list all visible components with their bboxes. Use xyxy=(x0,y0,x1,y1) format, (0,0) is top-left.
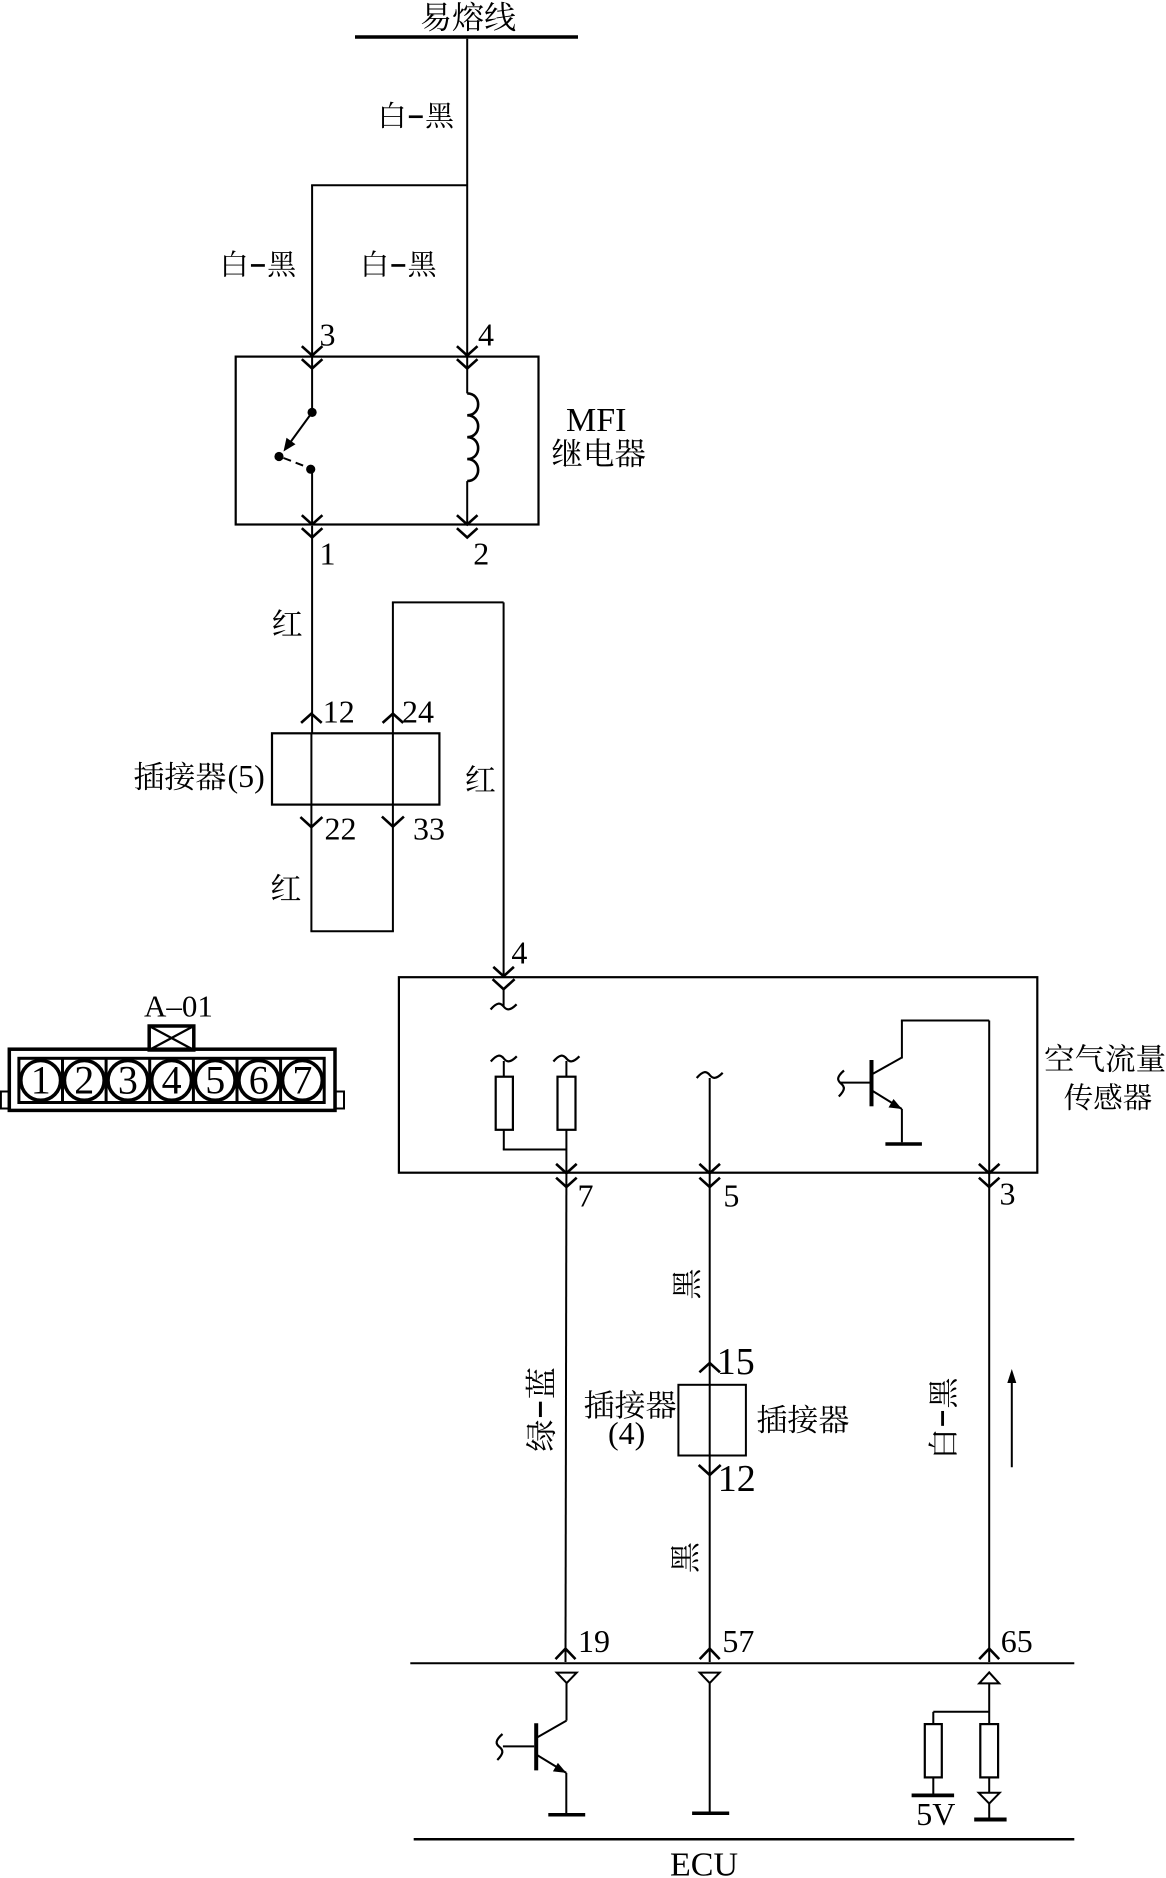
relay K1 MFI 继电器 box xyxy=(236,357,539,525)
R4 output triangle xyxy=(979,1793,1000,1804)
arrow out of connector5 pin 33 xyxy=(382,817,404,827)
break squiggle middle wire xyxy=(697,1072,723,1078)
arrow into connector5 pin 24 xyxy=(383,714,404,723)
wire up into pin33 xyxy=(392,805,394,932)
arrow below sensor pin 7 xyxy=(556,1178,577,1187)
connector5 internal wire 12-22 xyxy=(310,733,312,804)
sensor name 空气流量 xyxy=(1045,1044,1164,1072)
R4 ground bar xyxy=(974,1818,1006,1822)
R3 bottom stub xyxy=(932,1777,934,1793)
connector A-01 outer housing xyxy=(9,1049,335,1110)
svg-text:6: 6 xyxy=(249,1058,269,1103)
wire down to sensor pin4 红 xyxy=(503,602,505,975)
fusible link bus bar xyxy=(355,35,578,39)
Q1 collector riser xyxy=(901,1021,903,1059)
wire color label 白-黑 (left) xyxy=(224,250,295,277)
arrow below sensor pin 3 xyxy=(979,1178,1000,1187)
connector label 插接器 (right) xyxy=(757,1405,848,1434)
Q2 emitter ground bar xyxy=(548,1813,585,1817)
arrow below relay pin2 xyxy=(457,528,478,537)
connector (4) box 插接器(4) xyxy=(678,1385,746,1456)
ECU pin19 wire xyxy=(566,1683,568,1720)
connector A-01 terminal 7 xyxy=(283,1058,323,1103)
wire sensor pin7 to ECU pin19 绿-蓝 xyxy=(565,1174,568,1662)
break squiggle resistor R2 xyxy=(553,1056,579,1062)
connector A-01 cell divider xyxy=(236,1058,239,1102)
arrow inside sensor pin4 xyxy=(493,979,515,989)
ECU bottom boundary line xyxy=(414,1838,1075,1841)
svg-text:1: 1 xyxy=(31,1058,51,1103)
connector A-01 terminal 3 xyxy=(108,1058,148,1103)
wire color label 红 (below) xyxy=(272,874,301,900)
arrow below sensor pin 5 xyxy=(699,1178,720,1187)
arrow inside relay pin 3 xyxy=(302,359,323,368)
connector A-01 inner face xyxy=(19,1058,324,1102)
ECU pin57 input triangle xyxy=(700,1673,720,1684)
wire color label 黑 (rotated, upper) xyxy=(673,1270,701,1298)
wire sensor pin5 to connector4 pin15 黑 xyxy=(709,1174,711,1456)
svg-text:22: 22 xyxy=(325,811,357,847)
resistor R3 (to 5V) xyxy=(925,1724,942,1777)
connector A-01 right foot xyxy=(336,1092,344,1109)
ECU pin65 wire xyxy=(988,1683,990,1724)
svg-text:2: 2 xyxy=(74,1058,94,1103)
connector5 internal wire 24-33 xyxy=(392,733,394,804)
connector label 插接器 xyxy=(134,762,225,791)
arrow below relay pin1 xyxy=(302,528,323,537)
pin57 ground bar xyxy=(692,1812,729,1816)
ECU pin19 input triangle xyxy=(557,1673,577,1684)
svg-text:57: 57 xyxy=(722,1623,754,1659)
wire color label 白-黑 (rotated) xyxy=(928,1379,956,1455)
svg-text:3: 3 xyxy=(1000,1176,1016,1212)
wire U-turn horizontal xyxy=(310,930,394,932)
label fusible link 易熔线 xyxy=(422,2,516,32)
svg-text:33: 33 xyxy=(413,811,445,847)
arrow out of connector4 pin 12 xyxy=(699,1465,721,1475)
wire connector4 pin12 to ECU pin57 黑 xyxy=(709,1456,711,1663)
ECU pin65 output triangle xyxy=(979,1672,999,1683)
wire color label 红 (right) xyxy=(466,765,495,791)
R1 bottom stub xyxy=(503,1130,505,1150)
connector (5) box 插接器(5) xyxy=(272,733,439,804)
ECU top boundary line xyxy=(410,1662,1074,1664)
R4 bottom stub xyxy=(988,1777,990,1792)
svg-text:MFI: MFI xyxy=(566,402,626,439)
svg-text:(4): (4) xyxy=(608,1415,645,1451)
middle wire to pin5 xyxy=(709,1078,711,1172)
svg-text:15: 15 xyxy=(717,1341,755,1383)
wire fusible link to relay pin 4 白-黑 xyxy=(466,39,468,355)
connector label 插接器 (left) xyxy=(585,1390,676,1419)
svg-text:4: 4 xyxy=(162,1058,182,1103)
svg-text:7: 7 xyxy=(292,1058,312,1103)
R1-R2 bottom join xyxy=(503,1149,567,1151)
svg-text:A–01: A–01 xyxy=(144,989,213,1024)
R2 bottom wire to pin7 xyxy=(565,1130,567,1172)
svg-text:24: 24 xyxy=(402,694,434,730)
svg-text:19: 19 xyxy=(578,1623,610,1659)
svg-text:65: 65 xyxy=(1001,1623,1033,1659)
svg-text:5: 5 xyxy=(723,1178,739,1214)
arrow inside relay pin 4 xyxy=(457,359,478,368)
svg-text:12: 12 xyxy=(323,694,355,730)
arrow into relay pin 4 xyxy=(457,346,478,355)
svg-text:4: 4 xyxy=(478,317,494,353)
connector A-01 terminal 5 xyxy=(195,1058,235,1103)
break squiggle Q1 base xyxy=(838,1071,844,1097)
connector A-01 cell divider xyxy=(279,1058,282,1102)
connector A-01 cell divider xyxy=(61,1058,64,1102)
svg-text:(5): (5) xyxy=(228,758,265,794)
svg-text:5V: 5V xyxy=(916,1796,955,1832)
flow direction arrow (up) xyxy=(1007,1369,1016,1467)
ECU resistor branch horizontal xyxy=(933,1711,989,1713)
arrow relay pin1 at box edge xyxy=(302,515,323,524)
5V supply bar xyxy=(912,1794,955,1798)
relay pin1 internal wire xyxy=(311,470,313,524)
svg-text:5: 5 xyxy=(205,1058,225,1103)
connector A-01 terminal 6 xyxy=(239,1058,279,1103)
connector A-01 cell divider xyxy=(105,1058,108,1102)
wire color label 红 xyxy=(273,609,302,635)
transistor Q1 (inside sensor) xyxy=(841,1058,902,1143)
air flow sensor box 空气流量传感器 xyxy=(399,977,1037,1172)
arrow into ECU pin 57 xyxy=(700,1649,720,1660)
R4 triangle to ground stub xyxy=(988,1804,990,1818)
wire relay pin1 to connector5 pin12 红 xyxy=(311,526,313,733)
relay switch contact xyxy=(274,408,316,474)
resistor R2 xyxy=(558,1077,576,1130)
svg-text:2: 2 xyxy=(473,536,489,572)
R3 top stub xyxy=(932,1712,934,1724)
wire horizontal to sensor xyxy=(392,601,504,603)
branch wire horizontal xyxy=(311,184,467,186)
connector A-01 terminal 4 xyxy=(152,1058,192,1103)
Q1 emitter ground bar xyxy=(885,1142,922,1146)
wire color label 黑 (rotated, lower) xyxy=(671,1543,699,1571)
svg-text:12: 12 xyxy=(718,1458,756,1500)
arrow into connector5 pin 12 xyxy=(301,714,322,723)
arrow sensor pin 3 at box edge xyxy=(979,1164,1000,1173)
R2 top stub xyxy=(565,1061,567,1077)
wire from pin22 down 红 xyxy=(310,805,312,932)
svg-text:4: 4 xyxy=(511,935,527,971)
arrow into sensor pin 4 xyxy=(493,967,514,976)
connector A-01 cell divider xyxy=(192,1058,195,1102)
Q1 collector down to pin3 xyxy=(988,1021,990,1173)
connector A-01 locking tab xyxy=(149,1026,194,1050)
wire color label 白-黑 (middle) xyxy=(365,250,436,277)
arrow sensor pin 7 at box edge xyxy=(556,1164,577,1173)
arrow into ECU pin 65 xyxy=(979,1649,999,1660)
svg-text:ECU: ECU xyxy=(670,1847,738,1878)
svg-text:7: 7 xyxy=(578,1178,594,1214)
break squiggle resistor R1 xyxy=(491,1056,517,1062)
relay pin3 internal wire xyxy=(311,357,313,409)
sensor name 传感器 xyxy=(1065,1083,1152,1110)
wire branch to relay pin 3 白-黑 xyxy=(311,185,313,355)
connector A-01 cell divider xyxy=(148,1058,151,1102)
arrow relay pin2 at box edge xyxy=(457,515,478,524)
arrow into ECU pin 19 xyxy=(556,1649,576,1660)
transistor Q2 (inside ECU) xyxy=(503,1721,567,1814)
arrow into connector4 pin 15 xyxy=(699,1363,720,1372)
arrow out of connector5 pin 22 xyxy=(300,817,322,827)
connector A-01 terminal 2 xyxy=(64,1058,104,1103)
R1 top stub xyxy=(503,1061,505,1077)
svg-text:1: 1 xyxy=(320,536,336,572)
Q1 collector horizontal xyxy=(901,1020,989,1022)
arrow sensor pin 5 at box edge xyxy=(699,1164,720,1173)
connector A-01 terminal 1 xyxy=(21,1058,61,1103)
connector A-01 left foot xyxy=(1,1092,9,1109)
break squiggle Q2 base xyxy=(497,1734,503,1760)
resistor R4 (pull-down) xyxy=(980,1724,998,1777)
wire sensor pin3 to ECU pin65 白-黑 xyxy=(988,1174,990,1662)
wire color label 白-黑 xyxy=(382,102,453,129)
wire from pin24 up xyxy=(392,602,394,733)
relay coil xyxy=(467,357,478,524)
sensor pin4 stub wire xyxy=(503,989,505,1006)
relay name 继电器 xyxy=(552,438,645,467)
break squiggle pin4 xyxy=(491,1004,517,1010)
svg-text:3: 3 xyxy=(118,1058,138,1103)
wire color label 绿-蓝 (rotated) xyxy=(526,1368,556,1450)
arrow into relay pin 3 xyxy=(302,346,323,355)
resistor R1 xyxy=(496,1077,513,1130)
ECU pin57 wire to ground xyxy=(709,1683,711,1811)
